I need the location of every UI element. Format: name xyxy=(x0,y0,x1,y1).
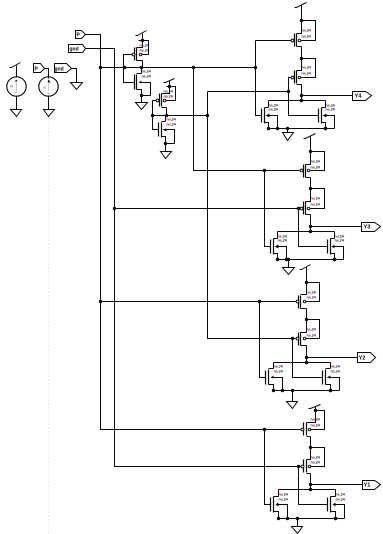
wire stage1 vdd stem xyxy=(301,6,303,21)
svg-text:na.24: na.24 xyxy=(302,35,311,39)
svg-text:na.24: na.24 xyxy=(311,166,320,170)
wire chainA mid node (long bias wire vb1) xyxy=(101,67,256,69)
node stage3 drain rail junction xyxy=(305,361,308,364)
nmos M3c (stage 3 left) xyxy=(266,365,283,393)
wire stage1 right nmos drain riser xyxy=(325,101,327,108)
wire stage1 pmos1 gate from bias tap xyxy=(256,40,292,42)
wire stage2 left nmos drain riser xyxy=(277,232,279,239)
node stage3 left-nmos gate tap xyxy=(258,300,261,303)
svg-text:na.24: na.24 xyxy=(311,461,320,465)
node stage4 ground junction xyxy=(296,517,299,520)
svg-text:na.24: na.24 xyxy=(331,370,340,374)
pmos M4b (stage 4 cascode) xyxy=(301,446,324,474)
vdd tick stage 4 xyxy=(309,405,321,409)
node stage4 left-nmos gate tap xyxy=(263,428,266,431)
wire stage4 bias vertical to left nmos gate xyxy=(265,430,271,505)
svg-text:na.24: na.24 xyxy=(167,123,176,127)
wire stage1 pmos1 drain to pmos2 source xyxy=(301,47,303,59)
svg-text:na.24: na.24 xyxy=(140,49,149,53)
pmos M1a (stage 1 top current source) xyxy=(291,19,315,47)
svg-text:Y4: Y4 xyxy=(355,94,363,100)
wire cascode bias vertical (chainB mid down to stage3) xyxy=(208,92,296,339)
wire stage2 ground stem xyxy=(288,260,290,268)
wire stage1 pmos2 drain riser to output node xyxy=(301,85,303,96)
node stage1 left bulk junction xyxy=(276,127,279,130)
wire stage2 nmos drain rail xyxy=(278,231,335,233)
node stage3 left bulk junction xyxy=(281,389,284,392)
wire stage4 pmos2 drain riser to output node xyxy=(310,474,312,485)
wire stage2 bias feed (vb1 branch down and right) xyxy=(194,68,301,171)
wire chainB vdd stem xyxy=(169,81,171,87)
port flag gnd (left) xyxy=(55,64,72,73)
node chainB drain junction xyxy=(165,114,168,117)
pmos M2b (stage 2 cascode) xyxy=(300,187,324,215)
node stage4 right source junction xyxy=(334,517,337,520)
svg-text:na.24: na.24 xyxy=(164,90,173,94)
pmos M3a (stage 3 top current source) xyxy=(296,281,319,309)
svg-text:na.24: na.24 xyxy=(311,424,320,428)
wire stage3 source rail xyxy=(274,390,340,392)
wire stage3 left nmos drain riser xyxy=(273,363,275,369)
vdd tick stage 1 xyxy=(295,3,307,8)
node stage4 cascode gate / right-nmos tap xyxy=(297,465,300,468)
pmos M1b (stage 1 cascode) xyxy=(291,57,315,85)
node stage2 right-nmos gate tap xyxy=(297,207,300,210)
wire stage4 pmos1 drain to pmos2 source xyxy=(310,437,312,448)
node vb1/chainA-mid junction xyxy=(99,66,102,69)
wire net2 to stage1 cascode gate xyxy=(208,91,289,93)
svg-text:na.24: na.24 xyxy=(311,203,320,207)
current source I2 xyxy=(39,77,58,96)
wire stage3 output to port xyxy=(307,357,358,359)
node stage4 left bulk junction xyxy=(286,517,289,520)
wire net vb1 bus: flag to right bus, down left side, to stage4 PMOS gate wire xyxy=(86,35,302,430)
node stage1 bias tap xyxy=(254,66,257,69)
svg-text:na.24: na.24 xyxy=(311,197,320,201)
wire stage1 output to port xyxy=(302,95,353,97)
wire gnd flag tail xyxy=(72,69,77,83)
svg-text:Y2: Y2 xyxy=(359,356,366,362)
nmos M4c (stage 4 left) xyxy=(271,493,288,521)
svg-text:na.24: na.24 xyxy=(269,108,278,112)
wire stage1 right nmos gate feed xyxy=(289,92,319,116)
node vb1/stage3 gate wire junction xyxy=(99,300,102,303)
wire stage1 source rail xyxy=(269,128,335,130)
node stage2 left-nmos gate tap xyxy=(263,169,266,172)
wire stage2 vdd stem xyxy=(310,137,312,152)
pmos M3b (stage 3 cascode) xyxy=(296,318,319,346)
wire chainA nmos drain riser xyxy=(141,68,143,74)
nmos M2c (stage 2 left) xyxy=(271,235,287,262)
nmos M1c (stage 1 left) xyxy=(262,104,278,131)
node stage3 ground junction xyxy=(291,389,294,392)
svg-text:na.24: na.24 xyxy=(311,456,320,460)
svg-text:na.24: na.24 xyxy=(167,118,176,122)
wire stage2 source rail xyxy=(278,259,344,261)
svg-text:gnd: gnd xyxy=(55,67,64,73)
nmos M12 (chain B bottom) xyxy=(159,118,176,146)
wire chainA vdd stem xyxy=(142,34,144,41)
port flag gnd (net vb2) xyxy=(69,45,86,53)
node stage1 output junction xyxy=(300,94,303,97)
wire chainB mid node xyxy=(153,115,208,117)
port Y1 (stage 4 output) xyxy=(363,481,381,490)
wire stage4 left nmos drain riser xyxy=(278,490,280,497)
svg-text:na.24: na.24 xyxy=(331,365,340,369)
svg-text:na.24: na.24 xyxy=(311,160,320,164)
wire stage2 output down to nmos drain rail xyxy=(310,227,312,232)
node chainA drain junction xyxy=(140,66,143,69)
wire stage1 bias vertical to left nmos gate xyxy=(256,41,262,116)
node chainB gate tie junction xyxy=(151,114,154,117)
svg-text:na.24: na.24 xyxy=(336,493,345,497)
svg-text:na.24: na.24 xyxy=(278,239,287,243)
node stage2 output junction xyxy=(309,225,312,228)
wire stage3 nmos drain rail xyxy=(274,362,331,364)
wire stage4 right nmos drain riser xyxy=(335,490,337,497)
ground stage 1 xyxy=(283,133,294,141)
port Y3 (stage 2 output) xyxy=(362,223,381,232)
vdd tick stage 2 xyxy=(304,134,316,139)
svg-text:gnd: gnd xyxy=(70,47,79,53)
wire I1 bottom stem xyxy=(16,96,18,110)
svg-text:id: id xyxy=(11,85,14,89)
nmos M4d (stage 4 right) xyxy=(328,493,345,521)
wire chainA source rail xyxy=(142,95,151,97)
svg-text:id: id xyxy=(44,86,47,90)
svg-text:na.24: na.24 xyxy=(279,493,288,497)
ground chain A xyxy=(136,103,148,110)
pmos M11 (chain B top, diode-connected) xyxy=(156,85,175,108)
wire stage2 output to port xyxy=(311,226,362,228)
svg-text:na.24: na.24 xyxy=(302,29,311,33)
ground below gnd flag xyxy=(71,83,83,90)
port flag P (net vb1) xyxy=(76,31,86,39)
node stage2 drain rail junction xyxy=(309,230,312,233)
node stage3 right-nmos gate tap xyxy=(291,337,294,340)
port flag P (I2 bias input) xyxy=(34,64,45,73)
node stage4 output junction xyxy=(309,483,312,486)
wire chainB source rail xyxy=(166,143,175,145)
wire stage3 vdd stem xyxy=(306,267,308,283)
wire stage4 source rail xyxy=(279,518,345,520)
wire chainB pmos drain riser xyxy=(166,108,168,116)
nmos M10 (chain A bottom) xyxy=(135,70,151,98)
wire stage1 output down to nmos drain rail xyxy=(301,96,303,101)
wire net1 to stage3 pmos gate xyxy=(101,301,296,303)
wire stage2 pmos2 drain riser to output node xyxy=(310,215,312,227)
wire chainB nmos drain riser xyxy=(165,116,167,122)
wire stage2 bias vertical to left nmos gate xyxy=(265,171,271,247)
svg-text:na.24: na.24 xyxy=(336,498,345,502)
wire stage3 right nmos drain riser xyxy=(330,363,332,369)
svg-text:Y1: Y1 xyxy=(364,483,371,489)
svg-text:na.24: na.24 xyxy=(326,108,335,112)
page boundary dashed line xyxy=(48,115,50,534)
current source I1 xyxy=(7,77,26,96)
wire stage4 output to port xyxy=(311,484,363,486)
svg-text:na.24: na.24 xyxy=(307,291,316,295)
wire stage4 vdd stem xyxy=(315,407,317,411)
vdd tick chain B xyxy=(164,79,175,83)
node chainA gate tie junction xyxy=(123,66,126,69)
svg-text:na.24: na.24 xyxy=(335,239,344,243)
pmos M2a (stage 2 top current source) xyxy=(300,150,324,178)
wire stage1 ground stem xyxy=(287,129,289,133)
svg-text:na.24: na.24 xyxy=(302,66,311,70)
node stage2 left bulk junction xyxy=(285,258,288,261)
wire stage1 pmos2 gate jog xyxy=(289,78,292,92)
svg-text:na.24: na.24 xyxy=(164,95,173,99)
wire I1 top stem xyxy=(16,66,18,78)
port Y2 (stage 3 output) xyxy=(358,353,376,363)
wire stage3 pmos2 drain riser to output node xyxy=(306,346,308,358)
wire chainA source stem xyxy=(141,96,143,103)
wire stage4 right nmos gate feed xyxy=(299,467,328,505)
ground below I2 xyxy=(44,110,55,117)
ground below I1 xyxy=(11,110,22,117)
wire stage2 pmos1 drain to pmos2 source xyxy=(310,178,312,189)
wire stage3 pmos1 drain to pmos2 source xyxy=(306,309,308,320)
svg-text:na.24: na.24 xyxy=(274,370,283,374)
node stage1 cascode gate junction xyxy=(287,90,290,93)
node stage3 right source junction xyxy=(329,389,332,392)
ground chain B xyxy=(161,152,172,159)
wire stage1 nmos drain rail xyxy=(269,100,326,102)
node stage2 ground junction xyxy=(287,258,290,261)
port Y4 (stage 1 output) xyxy=(353,92,372,101)
wire stage4 ground stem xyxy=(297,519,299,527)
wire chainA pmos drain riser xyxy=(142,61,144,68)
wire chainB gate tie xyxy=(153,101,159,130)
wire stage3 output down to nmos drain rail xyxy=(306,358,308,363)
wire I2 bottom stem xyxy=(48,96,50,110)
svg-text:na.24: na.24 xyxy=(311,418,320,422)
vdd tick chain A xyxy=(136,31,147,36)
node stage1 drain rail junction xyxy=(300,99,303,102)
node stage2 bias branch xyxy=(192,66,195,69)
ground stage 4 xyxy=(292,527,303,534)
wire net2 to stage2 cascode PMOS gate xyxy=(115,208,301,210)
nmos M2d (stage 2 right) xyxy=(328,235,344,262)
svg-text:na.24: na.24 xyxy=(142,75,151,79)
node stage1 ground junction xyxy=(286,127,289,130)
node stage4 drain rail junction xyxy=(309,488,312,491)
svg-text:na.24: na.24 xyxy=(279,498,288,502)
node vb2 vertical junction xyxy=(206,114,209,117)
svg-text:Y3: Y3 xyxy=(364,225,371,231)
svg-text:na.24: na.24 xyxy=(307,296,316,300)
wire stage2 right nmos gate feed xyxy=(299,209,328,247)
svg-text:na.24: na.24 xyxy=(140,44,149,48)
svg-text:na.24: na.24 xyxy=(142,70,151,74)
nmos M3d (stage 3 right) xyxy=(323,365,340,393)
svg-text:na.24: na.24 xyxy=(307,334,316,338)
node vb2/stage2 cascode gate junction xyxy=(113,207,116,210)
wire stage4 nmos drain rail xyxy=(279,489,336,491)
wire stage3 right nmos gate feed xyxy=(293,339,323,378)
svg-text:na.24: na.24 xyxy=(307,328,316,332)
node stage3 output junction xyxy=(305,356,308,359)
ground stage 2 xyxy=(283,268,295,275)
svg-text:na.24: na.24 xyxy=(302,72,311,76)
pmos M4a (stage 4 top current source) xyxy=(301,409,324,437)
wire stage3 bias vertical to left nmos gate xyxy=(260,302,266,378)
ground stage 3 xyxy=(287,402,298,409)
wire chainB source stem xyxy=(165,144,167,152)
wire stage3 ground stem xyxy=(292,391,294,402)
wire stage1 left nmos drain riser xyxy=(268,101,270,108)
wire net vb2 bus: flag down left side to stage4 cascode gate wire xyxy=(86,49,302,467)
vdd tick for I1 xyxy=(10,63,21,68)
wire stage2 right nmos drain riser xyxy=(334,232,336,239)
vdd tick stage 3 xyxy=(300,265,311,270)
svg-text:na.24: na.24 xyxy=(274,365,283,369)
node stage1 right source junction xyxy=(324,127,327,130)
node stage2 right source junction xyxy=(333,258,336,261)
wire stage4 output down to nmos drain rail xyxy=(310,485,312,490)
pmos M9 (chain A top, diode-connected) xyxy=(132,39,149,61)
nmos M1d (stage 1 right) xyxy=(319,104,335,131)
wire I2 top stem xyxy=(45,69,49,79)
wire chainA gate tie (pmos+nmos gates to mid node) xyxy=(124,55,135,83)
